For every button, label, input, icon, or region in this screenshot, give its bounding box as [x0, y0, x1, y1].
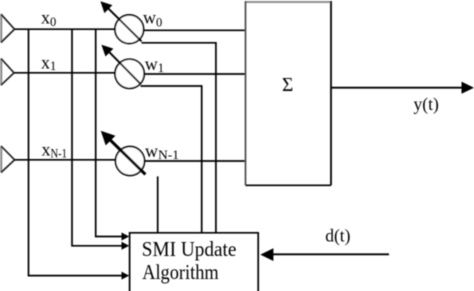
antenna A1 (element x0) — [1, 14, 15, 42]
svg-text:d(t): d(t) — [325, 225, 350, 245]
wire tap2 vertical (x=71.5 down to SMI input 2) — [72, 29, 124, 246]
arrowhead output — [462, 82, 474, 94]
svg-text:x1: x1 — [41, 52, 56, 73]
wire tap3 vertical (x=95.5 down to SMI input 1) — [96, 29, 124, 236]
svg-text:w1: w1 — [145, 54, 164, 75]
svg-text:w0: w0 — [143, 7, 162, 29]
wire row0 left (antenna x0 to multiplier W0) — [15, 28, 116, 30]
wire row1 right (multiplier W1 to summer) — [144, 73, 246, 75]
multiplier W0 circle — [115, 15, 144, 44]
antenna A3 (element xN-1) — [1, 146, 15, 173]
arrowhead d(t) into SMI — [260, 248, 273, 261]
multiplier WN-1 bold arrow — [101, 131, 146, 175]
svg-text:Algorithm: Algorithm — [142, 260, 219, 284]
multiplier W0 arrow — [100, 1, 141, 41]
wire row2 left (antenna xN-1 to multiplier WN-1) — [15, 159, 116, 161]
output wire y(t) — [331, 87, 463, 89]
arrowhead SMI input 3 — [122, 272, 130, 280]
weight feedback wire W1 (multiplier to SMI top) — [141, 86, 202, 233]
wire row0 right (multiplier W0 to summer) — [144, 29, 247, 31]
svg-text:Σ: Σ — [282, 75, 293, 96]
summer box (sigma) — [246, 1, 332, 185]
multiplier W1 arrow — [101, 45, 140, 84]
svg-text:SMI Update: SMI Update — [142, 237, 237, 261]
svg-text:xN-1: xN-1 — [42, 140, 68, 161]
weight feedback wire W0 (multiplier to SMI top) — [142, 43, 216, 233]
d(t) wire — [265, 253, 389, 255]
svg-text:x0: x0 — [41, 8, 56, 30]
wire row2 right (multiplier WN-1 to summer) — [145, 160, 247, 162]
wire row1 left (antenna x1 to multiplier W1) — [14, 72, 115, 74]
multiplier WN-1 circle — [116, 147, 145, 176]
multiplier W1 circle — [115, 59, 144, 88]
svg-text:y(t): y(t) — [414, 94, 439, 114]
arrowhead SMI input 1 — [122, 233, 130, 241]
wire tap1 vertical (x=28.5 down to SMI input 3) — [29, 29, 124, 275]
antenna A2 (element x1) — [1, 59, 14, 86]
SMI box — [130, 233, 259, 291]
svg-text:wN-1: wN-1 — [145, 141, 179, 162]
arrowhead SMI input 2 — [122, 242, 130, 250]
weight feedback wire WN-1 (vertical to SMI top) — [157, 176, 159, 232]
